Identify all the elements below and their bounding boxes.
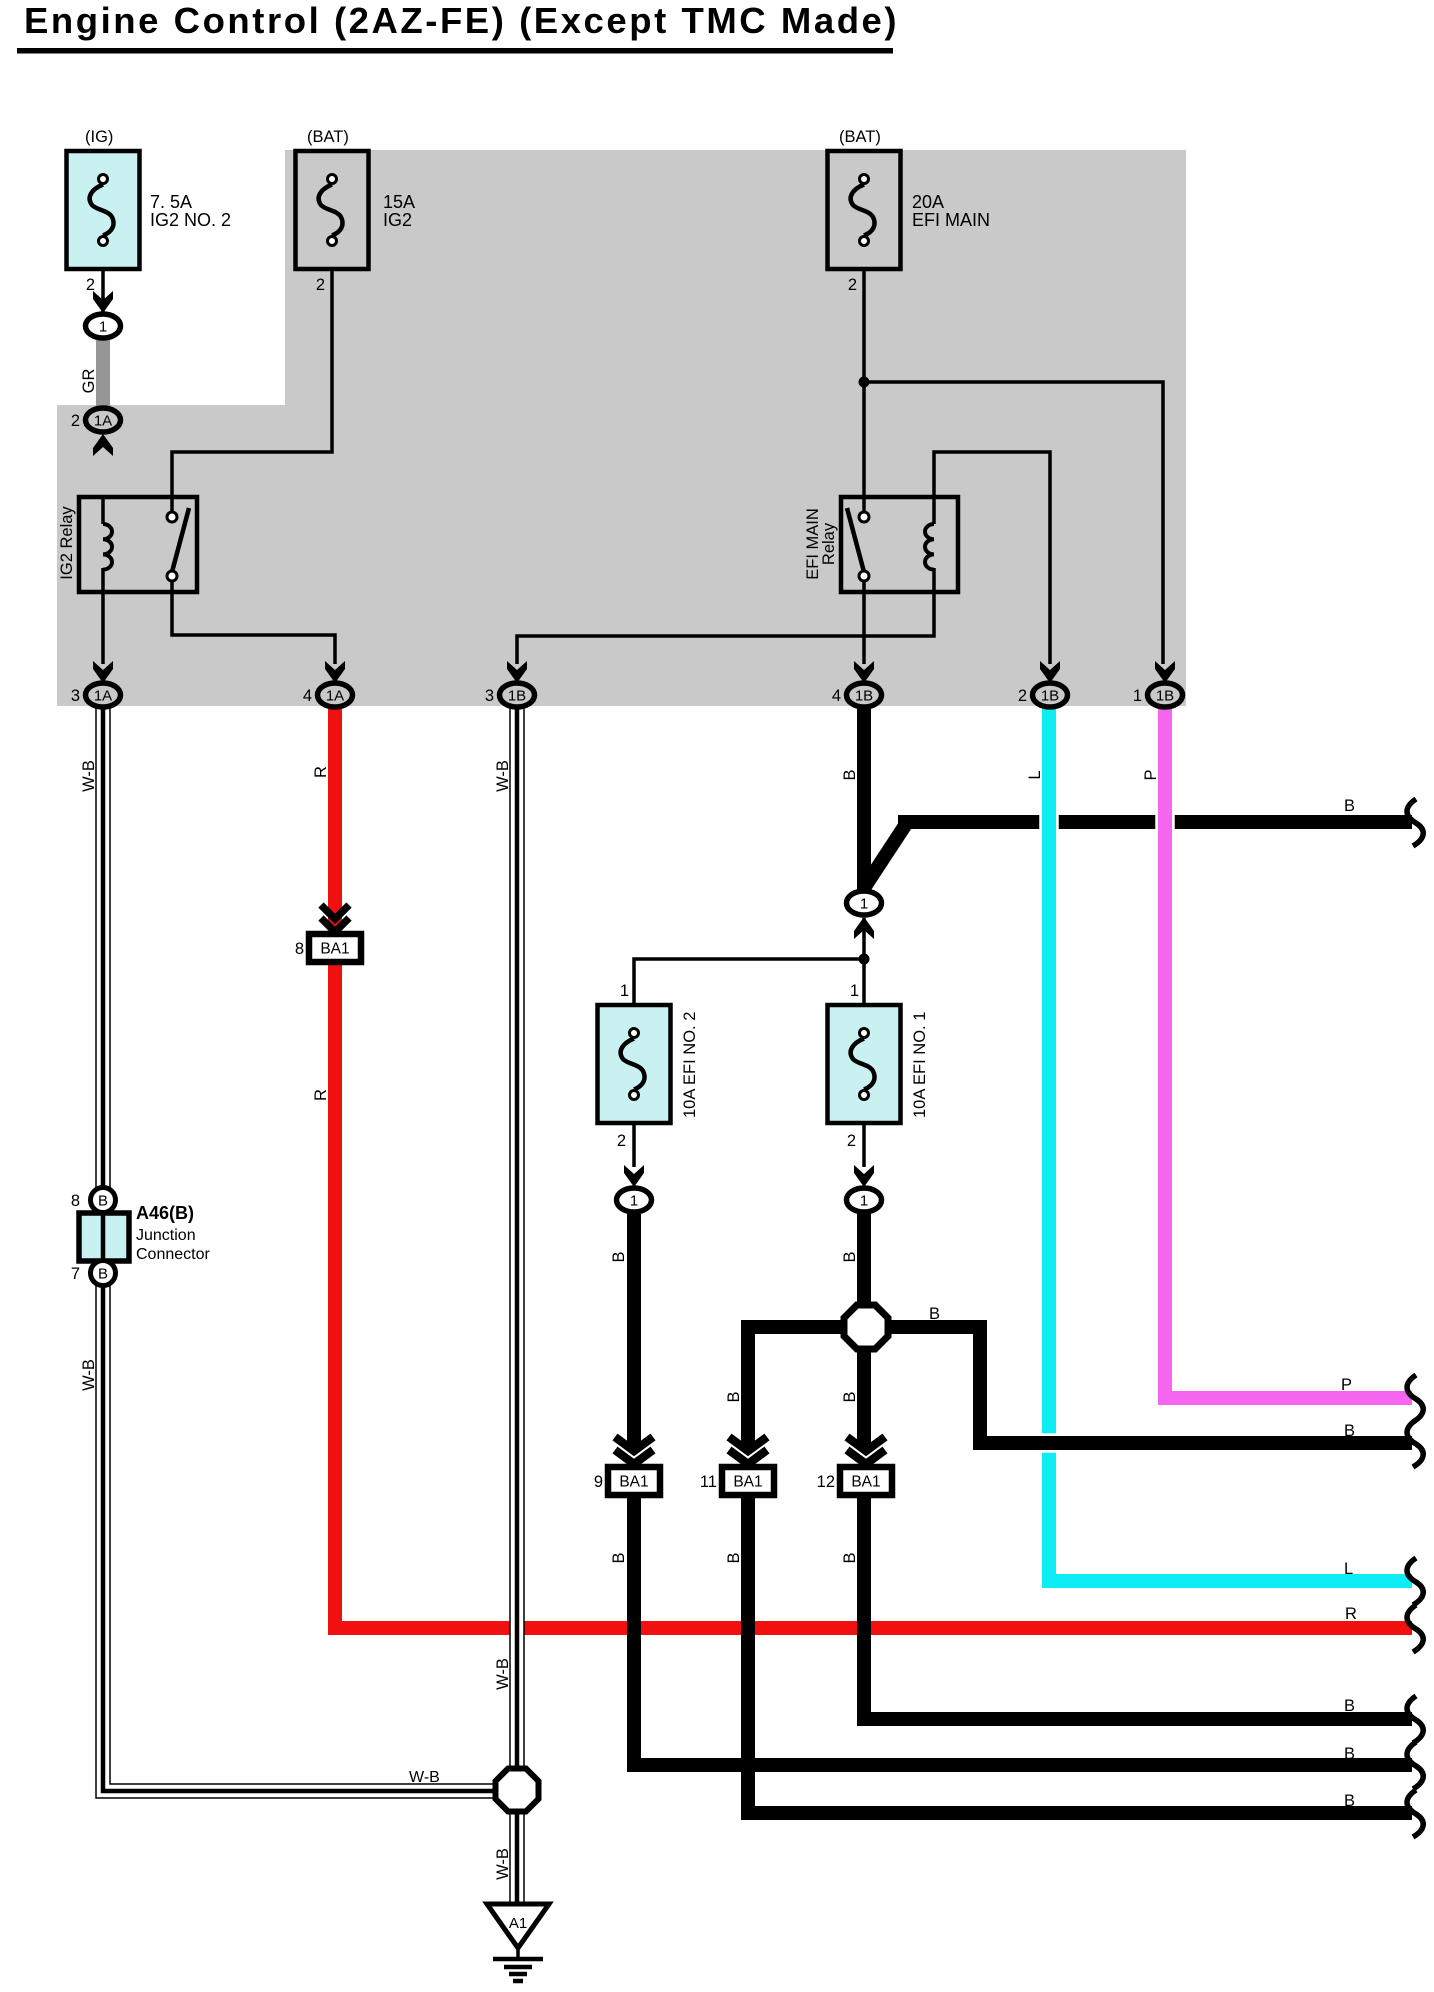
svg-text:Relay: Relay xyxy=(820,522,838,565)
svg-text:B: B xyxy=(841,1391,859,1402)
svg-text:20A: 20A xyxy=(912,192,944,212)
svg-text:(IG): (IG) xyxy=(85,128,113,146)
svg-text:1: 1 xyxy=(860,1193,868,1210)
svg-text:1B: 1B xyxy=(855,688,873,705)
svg-text:4: 4 xyxy=(303,687,312,705)
svg-text:(BAT): (BAT) xyxy=(839,128,881,146)
svg-text:Junction: Junction xyxy=(136,1227,196,1244)
svg-text:P: P xyxy=(1142,769,1160,780)
svg-text:IG2 Relay: IG2 Relay xyxy=(58,506,76,580)
svg-text:Engine Control (2AZ-FE) (Excep: Engine Control (2AZ-FE) (Except TMC Made… xyxy=(24,0,899,41)
svg-text:1B: 1B xyxy=(1156,688,1174,705)
svg-text:4: 4 xyxy=(832,687,841,705)
svg-text:B: B xyxy=(610,1552,628,1563)
svg-text:2: 2 xyxy=(617,1132,626,1150)
svg-text:BA1: BA1 xyxy=(619,1474,648,1491)
svg-text:BA1: BA1 xyxy=(851,1474,880,1491)
svg-text:GR: GR xyxy=(80,369,98,394)
svg-text:1: 1 xyxy=(850,982,859,1000)
svg-text:P: P xyxy=(1341,1376,1352,1394)
svg-text:B: B xyxy=(725,1391,743,1402)
svg-text:B: B xyxy=(1344,1792,1355,1810)
svg-text:B: B xyxy=(841,1251,859,1262)
svg-text:3: 3 xyxy=(485,687,494,705)
svg-text:1: 1 xyxy=(860,896,868,913)
svg-text:1B: 1B xyxy=(1041,688,1059,705)
svg-text:2: 2 xyxy=(1018,687,1027,705)
svg-text:A46(B): A46(B) xyxy=(136,1203,194,1223)
svg-text:L: L xyxy=(1344,1560,1353,1578)
svg-text:15A: 15A xyxy=(383,192,415,212)
svg-text:B: B xyxy=(725,1552,743,1563)
svg-text:B: B xyxy=(98,1266,108,1283)
svg-text:B: B xyxy=(98,1193,108,1210)
svg-text:W-B: W-B xyxy=(80,760,98,792)
svg-text:BA1: BA1 xyxy=(733,1474,762,1491)
svg-text:B: B xyxy=(1344,1422,1355,1440)
svg-text:BA1: BA1 xyxy=(320,941,349,958)
svg-text:8: 8 xyxy=(71,1192,80,1210)
svg-text:B: B xyxy=(929,1305,940,1323)
svg-text:EFI MAIN: EFI MAIN xyxy=(912,210,990,230)
svg-text:B: B xyxy=(1344,1697,1355,1715)
svg-text:W-B: W-B xyxy=(494,1848,512,1880)
svg-text:B: B xyxy=(841,1552,859,1563)
svg-text:B: B xyxy=(1344,797,1355,815)
svg-text:1: 1 xyxy=(630,1193,638,1210)
svg-text:2: 2 xyxy=(71,412,80,430)
svg-text:2: 2 xyxy=(316,276,325,294)
svg-text:3: 3 xyxy=(71,687,80,705)
svg-text:10A EFI NO. 2: 10A EFI NO. 2 xyxy=(681,1012,699,1118)
svg-text:R: R xyxy=(1345,1605,1357,1623)
svg-text:W-B: W-B xyxy=(409,1769,440,1786)
svg-text:2: 2 xyxy=(86,276,95,294)
svg-text:2: 2 xyxy=(848,276,857,294)
svg-text:L: L xyxy=(1026,770,1044,779)
svg-text:1: 1 xyxy=(99,319,107,336)
svg-text:R: R xyxy=(312,766,330,778)
svg-text:B: B xyxy=(1344,1745,1355,1763)
svg-text:1A: 1A xyxy=(94,688,112,705)
svg-text:1: 1 xyxy=(1133,687,1142,705)
svg-text:Connector: Connector xyxy=(136,1246,210,1263)
svg-text:12: 12 xyxy=(817,1473,835,1491)
svg-text:W-B: W-B xyxy=(494,760,512,792)
svg-text:IG2: IG2 xyxy=(383,210,412,230)
svg-text:IG2 NO. 2: IG2 NO. 2 xyxy=(150,210,231,230)
svg-text:11: 11 xyxy=(700,1473,717,1491)
svg-text:2: 2 xyxy=(847,1132,856,1150)
svg-text:1: 1 xyxy=(620,982,629,1000)
svg-text:W-B: W-B xyxy=(80,1359,98,1391)
svg-text:1A: 1A xyxy=(326,688,344,705)
svg-text:7. 5A: 7. 5A xyxy=(150,192,192,212)
svg-text:B: B xyxy=(610,1251,628,1262)
svg-text:W-B: W-B xyxy=(494,1658,512,1690)
svg-text:8: 8 xyxy=(295,940,304,958)
svg-text:9: 9 xyxy=(594,1473,603,1491)
svg-text:A1: A1 xyxy=(509,1915,527,1932)
svg-text:1B: 1B xyxy=(508,688,526,705)
svg-text:(BAT): (BAT) xyxy=(307,128,349,146)
svg-text:B: B xyxy=(841,769,859,780)
svg-text:R: R xyxy=(312,1089,330,1101)
svg-text:1A: 1A xyxy=(94,413,112,430)
svg-text:10A EFI NO. 1: 10A EFI NO. 1 xyxy=(911,1012,929,1118)
svg-text:7: 7 xyxy=(71,1265,80,1283)
